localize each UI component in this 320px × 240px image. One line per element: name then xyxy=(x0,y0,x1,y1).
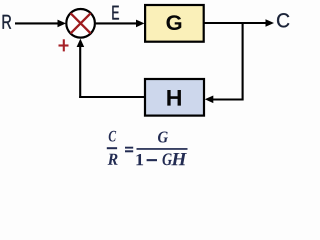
wire H output feedback left xyxy=(79,96,144,98)
plus sign label xyxy=(59,44,69,46)
formula denominator G xyxy=(163,153,173,165)
block H label xyxy=(167,90,181,106)
block H box xyxy=(145,79,204,116)
formula fraction bar C/R xyxy=(107,147,117,149)
formula denominator H xyxy=(171,153,187,165)
formula equals sign xyxy=(125,147,133,149)
node C label xyxy=(277,13,289,27)
wire R to summing junction xyxy=(15,22,60,24)
wire branch into H input xyxy=(211,98,243,100)
node R label xyxy=(3,15,12,29)
formula digit 1 xyxy=(136,154,143,165)
summing junction S1 xyxy=(66,9,95,38)
wire summing junction to G (signal E) xyxy=(96,22,138,24)
block G label xyxy=(167,15,182,30)
node E label xyxy=(112,6,119,20)
block G box xyxy=(145,5,204,42)
wire G to output C xyxy=(205,22,267,24)
formula numerator G xyxy=(158,132,168,143)
formula minus xyxy=(147,159,157,161)
wire branch down from output node xyxy=(242,23,244,101)
formula numerator C xyxy=(109,131,117,142)
formula fraction bar G/(1-GH) xyxy=(137,148,188,150)
wire feedback up into summing junction xyxy=(79,44,81,99)
summing junction X mark xyxy=(71,13,91,33)
formula denominator R xyxy=(108,154,118,165)
